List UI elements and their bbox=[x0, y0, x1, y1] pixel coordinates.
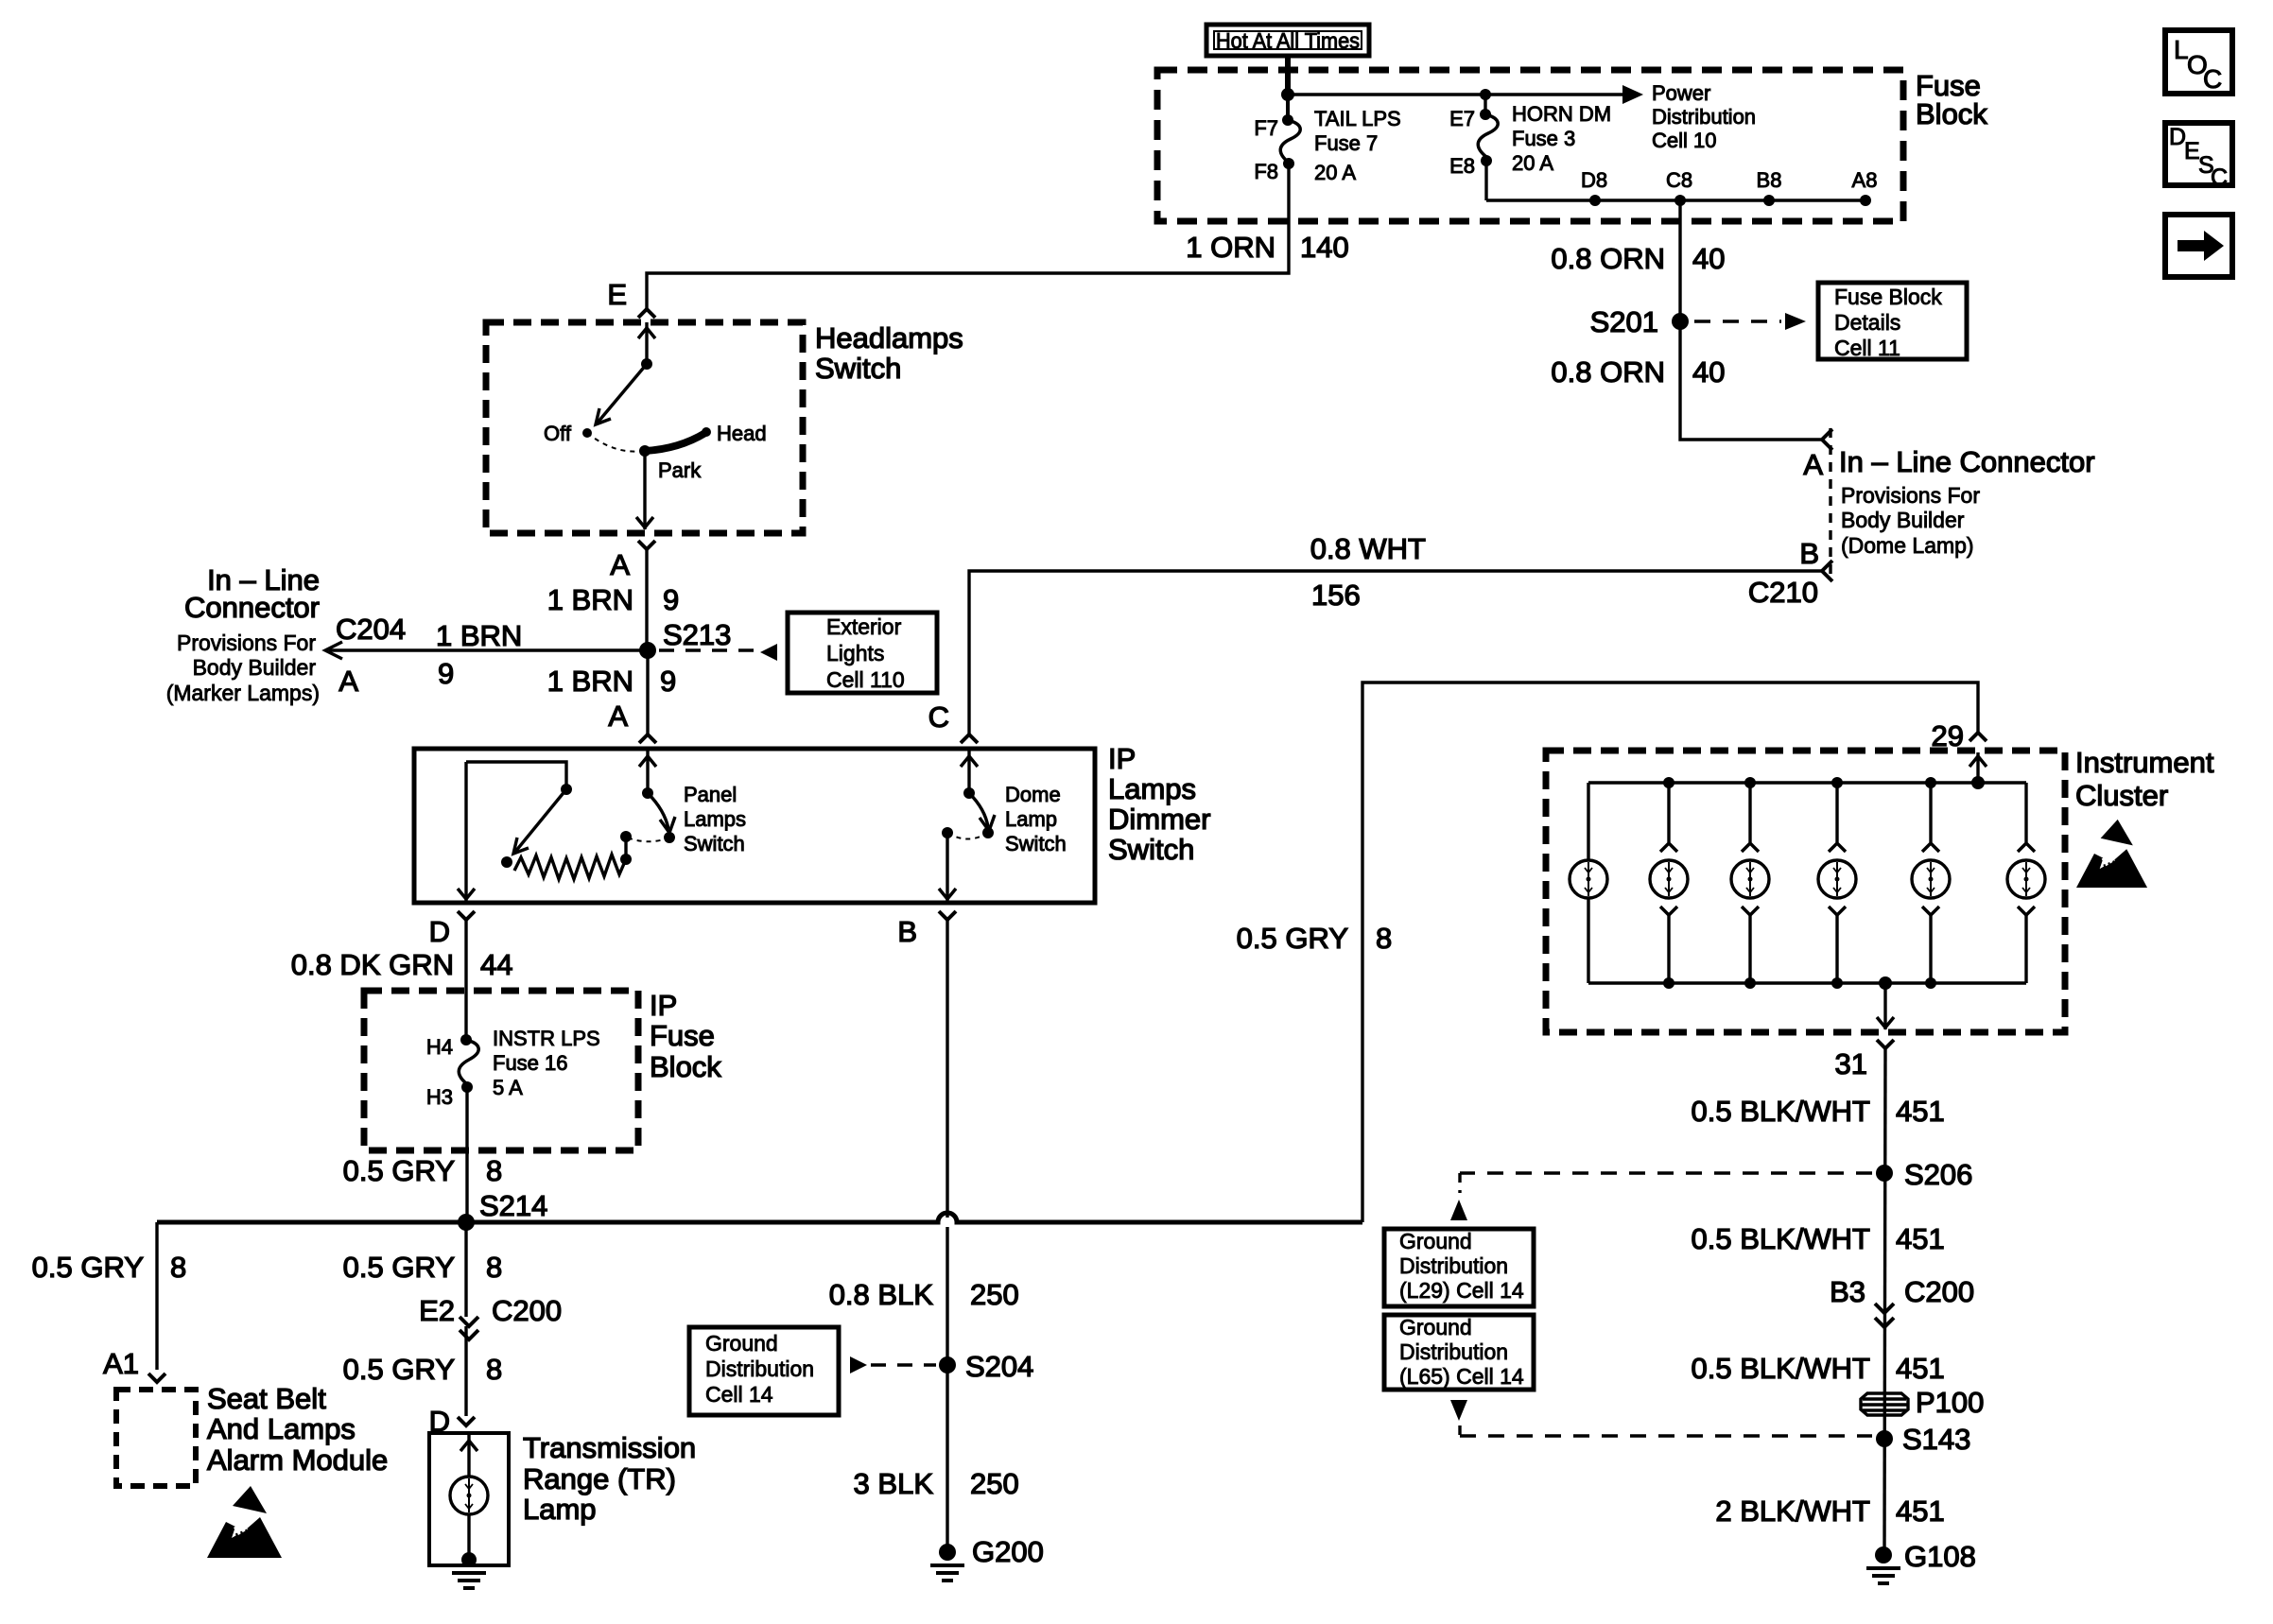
svg-text:A: A bbox=[1803, 448, 1823, 481]
svg-text:Cell 14: Cell 14 bbox=[705, 1382, 773, 1407]
cluster lamp 5 bbox=[1912, 777, 1950, 989]
wire junction to E7 bbox=[1484, 95, 1486, 114]
svg-text:In – Line Connector: In – Line Connector bbox=[1839, 445, 2095, 478]
svg-text:40: 40 bbox=[1692, 355, 1725, 389]
label C204 bbox=[336, 613, 406, 646]
label Instrument Cluster bbox=[2075, 746, 2214, 812]
terminal B8 bbox=[1757, 168, 1782, 206]
svg-text:Lamps: Lamps bbox=[1108, 772, 1196, 805]
svg-text:Switch: Switch bbox=[1005, 832, 1067, 855]
connector terminal A1 bbox=[103, 1347, 165, 1382]
connector terminal A (headlamps switch) bbox=[610, 541, 655, 581]
label 0.8 ORN 40 upper bbox=[1551, 242, 1725, 275]
label Hot At All Times bbox=[1206, 25, 1369, 56]
cluster bottom bus bbox=[1588, 981, 2026, 984]
label 2 BLK/WHT 451 bbox=[1715, 1494, 1944, 1528]
label Fuse Block bbox=[1916, 69, 1987, 130]
svg-text:8: 8 bbox=[486, 1251, 502, 1284]
svg-text:Distribution: Distribution bbox=[1399, 1339, 1508, 1364]
svg-text:Dome: Dome bbox=[1005, 783, 1061, 806]
svg-text:Connector: Connector bbox=[184, 591, 320, 624]
svg-text:C204: C204 bbox=[336, 613, 406, 646]
splice S143 bbox=[1876, 1423, 1970, 1456]
svg-text:A: A bbox=[338, 665, 358, 698]
svg-text:0.5 GRY: 0.5 GRY bbox=[343, 1154, 455, 1187]
svg-text:Cell 11: Cell 11 bbox=[1834, 336, 1900, 360]
svg-text:S143: S143 bbox=[1902, 1423, 1970, 1456]
svg-text:20 A: 20 A bbox=[1512, 151, 1553, 175]
svg-text:Provisions For: Provisions For bbox=[177, 631, 316, 655]
svg-text:Park: Park bbox=[658, 458, 702, 482]
svg-text:Ground: Ground bbox=[705, 1331, 778, 1356]
svg-text:31: 31 bbox=[1835, 1047, 1867, 1080]
connector terminal A (dimmer switch) bbox=[608, 700, 656, 743]
svg-text:44: 44 bbox=[480, 948, 512, 981]
svg-text:156: 156 bbox=[1311, 579, 1361, 612]
label Seat Belt And Lamps Alarm Module bbox=[207, 1382, 388, 1477]
cluster lamp 4 bbox=[1818, 777, 1856, 989]
svg-text:3 BLK: 3 BLK bbox=[854, 1467, 934, 1500]
svg-text:Switch: Switch bbox=[684, 832, 745, 855]
pin F7 bbox=[1254, 114, 1293, 140]
svg-text:(Marker Lamps): (Marker Lamps) bbox=[166, 681, 320, 705]
svg-text:Range (TR): Range (TR) bbox=[523, 1462, 676, 1495]
connector terminal E bbox=[607, 278, 655, 318]
wire bus right end up and across to cluster feed bbox=[1362, 682, 1978, 1222]
wire dimmer B down to G200 bbox=[946, 920, 948, 1552]
svg-text:250: 250 bbox=[970, 1278, 1019, 1311]
fuse E7-E8 HORN DM Fuse 3 20A bbox=[1478, 114, 1498, 157]
ESD symbol (seat belt module) bbox=[207, 1486, 282, 1558]
panel lamps switch pivot bbox=[642, 787, 653, 799]
svg-text:B3: B3 bbox=[1830, 1275, 1865, 1308]
junction at E7 column bbox=[1480, 89, 1491, 100]
pin H3 bbox=[426, 1081, 473, 1109]
svg-text:Panel: Panel bbox=[684, 783, 737, 806]
svg-text:And Lamps: And Lamps bbox=[207, 1412, 356, 1445]
dome lamp switch arm bbox=[969, 793, 995, 831]
label TAIL LPS Fuse 7 20 A bbox=[1314, 107, 1401, 184]
svg-text:C: C bbox=[928, 700, 949, 734]
seat belt module dashed outline bbox=[116, 1390, 196, 1486]
label 1 BRN 9 lower bbox=[547, 665, 677, 698]
svg-text:0.5 BLK/WHT: 0.5 BLK/WHT bbox=[1692, 1352, 1871, 1385]
svg-text:0.8 ORN: 0.8 ORN bbox=[1551, 355, 1665, 389]
svg-text:H3: H3 bbox=[426, 1085, 453, 1109]
svg-text:G200: G200 bbox=[972, 1535, 1044, 1568]
svg-text:Alarm Module: Alarm Module bbox=[207, 1443, 388, 1477]
svg-text:F8: F8 bbox=[1254, 160, 1278, 183]
wiper arm arrow bbox=[513, 789, 566, 854]
svg-text:Lights: Lights bbox=[826, 641, 884, 665]
instrument cluster dashed outline bbox=[1546, 751, 2065, 1032]
svg-text:Ground: Ground bbox=[1399, 1315, 1472, 1339]
svg-text:Fuse 7: Fuse 7 bbox=[1314, 131, 1378, 155]
svg-text:(L65) Cell 14: (L65) Cell 14 bbox=[1399, 1364, 1524, 1389]
wire hot feed into fuse block bbox=[1285, 56, 1291, 95]
svg-text:A1: A1 bbox=[103, 1347, 139, 1380]
label 3 BLK 250 bbox=[854, 1467, 1019, 1500]
reference box Ground Distribution (L29) Cell 14 bbox=[1384, 1229, 1534, 1306]
dashed arc panel switch to rheostat bbox=[630, 838, 669, 841]
pin E8 bbox=[1449, 154, 1492, 178]
svg-text:451: 451 bbox=[1896, 1352, 1945, 1385]
svg-text:Fuse 16: Fuse 16 bbox=[493, 1051, 568, 1075]
wire D to IP fuse block bbox=[464, 920, 467, 1040]
svg-text:E: E bbox=[607, 278, 627, 311]
label IP Fuse Block bbox=[650, 989, 721, 1083]
IP fuse block dashed outline bbox=[364, 991, 638, 1150]
svg-text:S201: S201 bbox=[1590, 305, 1658, 338]
label 0.5 GRY 8 above S214 bbox=[343, 1154, 503, 1187]
label HORN DM Fuse 3 20 A bbox=[1512, 102, 1611, 175]
label Power Distribution Cell 10 bbox=[1652, 81, 1756, 152]
svg-text:A: A bbox=[610, 548, 630, 581]
headlamps switch pivot bbox=[641, 358, 652, 370]
svg-text:8: 8 bbox=[486, 1154, 502, 1187]
svg-text:0.5 GRY: 0.5 GRY bbox=[343, 1251, 455, 1284]
cluster lamp 6 bbox=[2007, 783, 2045, 983]
svg-text:C200: C200 bbox=[1904, 1275, 1974, 1308]
dashed arrow S201 to Fuse Block Details bbox=[1694, 313, 1806, 330]
contact Park bbox=[639, 445, 702, 482]
wire Park down to A with exit arrow bbox=[636, 451, 653, 529]
connector pin A (marker lamps) bbox=[338, 665, 358, 698]
svg-text:0.5 BLK/WHT: 0.5 BLK/WHT bbox=[1692, 1095, 1871, 1128]
terminal A8 bbox=[1852, 168, 1878, 206]
rheostat right terminal bbox=[620, 831, 632, 865]
svg-text:IP: IP bbox=[650, 989, 677, 1022]
wire dome lamp C into dimmer with entry arrow bbox=[961, 751, 978, 793]
svg-text:Fuse Block: Fuse Block bbox=[1834, 285, 1942, 309]
wire E8 to terminal row bbox=[1484, 161, 1487, 200]
svg-text:A: A bbox=[608, 700, 628, 733]
svg-text:8: 8 bbox=[1376, 922, 1392, 955]
wiper feed wire bbox=[466, 762, 572, 795]
svg-text:Power: Power bbox=[1652, 81, 1710, 105]
reference box Exterior Lights Cell 110 bbox=[788, 613, 937, 693]
svg-text:Fuse: Fuse bbox=[650, 1019, 715, 1052]
svg-text:D8: D8 bbox=[1581, 168, 1607, 192]
headlamps switch arm to Off bbox=[596, 364, 647, 424]
ground G108 bbox=[1866, 1540, 1976, 1583]
svg-text:S206: S206 bbox=[1904, 1158, 1972, 1191]
ground symbol (TR lamp) bbox=[452, 1573, 486, 1588]
connector C200 pin B3 pass-through bbox=[1830, 1275, 1974, 1327]
panel lamps switch arm bbox=[648, 793, 675, 833]
ground G200 bbox=[930, 1535, 1044, 1581]
pin H4 bbox=[426, 1034, 472, 1059]
svg-text:8: 8 bbox=[486, 1353, 502, 1386]
label Panel Lamps Switch bbox=[684, 783, 746, 855]
label S214 bbox=[479, 1189, 547, 1222]
svg-text:Cell 110: Cell 110 bbox=[826, 667, 905, 692]
ESD symbol (instrument cluster) bbox=[2076, 820, 2147, 888]
connector terminal B (in-line, dome lamp) bbox=[1799, 537, 1832, 581]
splice S214 bbox=[458, 1214, 475, 1231]
cluster feed junction bbox=[1971, 776, 1985, 789]
connector terminal C (dimmer switch) bbox=[928, 700, 978, 743]
svg-text:Switch: Switch bbox=[815, 352, 901, 385]
label In-Line Connector (dome lamp) bbox=[1839, 445, 2095, 558]
wire bus left end down to A1 bbox=[155, 1222, 158, 1370]
dashed travel arc Off to Park bbox=[587, 433, 643, 452]
terminal D8 bbox=[1581, 168, 1607, 206]
wire S213 down to dimmer switch A bbox=[646, 650, 649, 734]
reference box Fuse Block Details Cell 11 bbox=[1818, 283, 1967, 360]
splice S201 bbox=[1590, 305, 1689, 338]
wire E into switch with entry arrow bbox=[638, 322, 655, 364]
switch wiper arc Park to Head bbox=[645, 433, 705, 451]
svg-text:D: D bbox=[429, 915, 450, 948]
svg-text:(L29) Cell 14: (L29) Cell 14 bbox=[1399, 1278, 1524, 1303]
dome lamp switch pivot bbox=[963, 787, 975, 799]
TR lamp ground terminal bbox=[461, 1552, 477, 1567]
junction at F7 column bbox=[1281, 88, 1294, 101]
panel lamps switch contact bbox=[664, 832, 675, 843]
label 1 BRN 9 upper bbox=[547, 583, 680, 616]
wire bus arrow to Power Distribution bbox=[1288, 85, 1643, 104]
headlamps switch dashed outline bbox=[486, 322, 803, 533]
svg-text:S213: S213 bbox=[663, 618, 731, 651]
svg-text:Seat Belt: Seat Belt bbox=[207, 1382, 326, 1415]
svg-text:451: 451 bbox=[1896, 1222, 1945, 1255]
svg-text:F7: F7 bbox=[1254, 116, 1278, 140]
IP lamps dimmer switch outline bbox=[414, 749, 1095, 903]
svg-text:9: 9 bbox=[660, 665, 676, 698]
svg-text:Provisions For: Provisions For bbox=[1841, 483, 1980, 508]
label 0.5 GRY 8 (TR leg) bbox=[343, 1353, 503, 1386]
svg-text:451: 451 bbox=[1896, 1494, 1945, 1528]
svg-text:C210: C210 bbox=[1748, 576, 1818, 609]
wire 31 down to G108 bbox=[1884, 1048, 1885, 1555]
svg-text:Block: Block bbox=[650, 1050, 721, 1083]
label 0.5 BLK/WHT 451 third bbox=[1692, 1352, 1945, 1385]
svg-text:0.8 WHT: 0.8 WHT bbox=[1310, 532, 1426, 565]
fuse F7-F8 TAIL LPS Fuse 7 20A bbox=[1280, 120, 1300, 163]
wire S213 to C204 with arrow bbox=[325, 642, 648, 659]
dashed arrow Ground Distribution to S204 bbox=[850, 1356, 936, 1373]
S214 bus wire with hop over B leg bbox=[157, 1213, 1362, 1222]
cluster lamp 2 bbox=[1650, 777, 1688, 989]
rheostat resistive element bbox=[514, 855, 626, 879]
label IP Lamps Dimmer Switch bbox=[1108, 742, 1211, 866]
connector terminal 29 (cluster feed) bbox=[1932, 719, 1987, 752]
connector terminal A (in-line, dome lamp) bbox=[1803, 429, 1832, 481]
svg-text:0.8 BLK: 0.8 BLK bbox=[829, 1278, 934, 1311]
cluster output junction bbox=[1879, 976, 1892, 990]
svg-text:0.5 GRY: 0.5 GRY bbox=[343, 1353, 455, 1386]
svg-text:2 BLK/WHT: 2 BLK/WHT bbox=[1715, 1494, 1870, 1528]
label C210 bbox=[1748, 576, 1818, 609]
svg-text:B8: B8 bbox=[1757, 168, 1782, 192]
svg-text:0.8 ORN: 0.8 ORN bbox=[1551, 242, 1665, 275]
svg-text:C200: C200 bbox=[492, 1294, 562, 1327]
wire wiper feed to D exit with arrow bbox=[458, 762, 475, 901]
contact Off bbox=[544, 422, 592, 445]
legend box forward arrow bbox=[2165, 215, 2232, 277]
legend box DESC bbox=[2165, 123, 2232, 191]
label 0.8 ORN 40 lower bbox=[1551, 355, 1725, 389]
svg-text:20 A: 20 A bbox=[1314, 161, 1356, 184]
svg-text:Details: Details bbox=[1834, 310, 1900, 335]
fuse block terminal row wire bbox=[1486, 199, 1865, 201]
svg-text:B: B bbox=[1799, 537, 1819, 570]
cluster lamp 3 bbox=[1731, 777, 1769, 989]
svg-text:250: 250 bbox=[970, 1467, 1019, 1500]
svg-text:HORN DM: HORN DM bbox=[1512, 102, 1611, 126]
connector terminal 31 (cluster output) bbox=[1835, 1040, 1894, 1080]
wire 0.8 WHT from C210 to dimmer C bbox=[969, 571, 1822, 734]
wire A into dimmer with entry arrow bbox=[639, 751, 656, 793]
rheostat wiper terminal bbox=[501, 856, 512, 868]
svg-text:A8: A8 bbox=[1852, 168, 1878, 192]
wire B exit with arrow bbox=[939, 833, 956, 901]
label 0.8 DK GRN 44 bbox=[291, 948, 513, 981]
svg-text:9: 9 bbox=[438, 657, 454, 690]
svg-text:Lamp: Lamp bbox=[1005, 807, 1057, 831]
dashed reference L65 to S143 bbox=[1450, 1400, 1872, 1436]
transmission range lamp outline bbox=[429, 1433, 509, 1565]
svg-text:Cluster: Cluster bbox=[2075, 779, 2168, 812]
label 1 BRN 9 (marker lamps leg) bbox=[436, 619, 522, 690]
reference box Ground Distribution (L65) Cell 14 bbox=[1384, 1315, 1534, 1390]
grommet P100 bbox=[1861, 1386, 1984, 1419]
splice S204 bbox=[939, 1350, 1033, 1383]
svg-text:Block: Block bbox=[1916, 97, 1987, 130]
svg-text:C: C bbox=[2203, 64, 2222, 94]
label 0.5 GRY 8 below S214 bbox=[343, 1251, 503, 1284]
svg-text:Switch: Switch bbox=[1108, 833, 1194, 866]
label 0.5 BLK/WHT 451 first bbox=[1692, 1095, 1945, 1128]
label Headlamps Switch bbox=[815, 321, 963, 385]
TR lamp bulb bbox=[450, 1477, 488, 1514]
svg-text:451: 451 bbox=[1896, 1095, 1945, 1128]
label 0.5 BLK/WHT 451 second bbox=[1692, 1222, 1945, 1255]
svg-text:Body Builder: Body Builder bbox=[193, 655, 317, 680]
wire 29 into cluster with entry arrow bbox=[1969, 752, 1987, 783]
in-line connector boundary (dome lamp) bbox=[1829, 428, 1831, 574]
svg-text:Lamps: Lamps bbox=[684, 807, 746, 831]
label Dome Lamp Switch bbox=[1005, 783, 1067, 855]
svg-text:C: C bbox=[2211, 164, 2228, 191]
svg-text:S214: S214 bbox=[479, 1189, 547, 1222]
svg-text:Headlamps: Headlamps bbox=[815, 321, 963, 354]
splice S206 bbox=[1876, 1158, 1972, 1191]
connector terminal B (dimmer switch) bbox=[897, 911, 956, 948]
label 0.5 GRY 8 (cluster feed) bbox=[1237, 922, 1393, 955]
svg-text:P100: P100 bbox=[1916, 1386, 1984, 1419]
svg-text:H4: H4 bbox=[426, 1035, 453, 1059]
svg-text:Fuse 3: Fuse 3 bbox=[1512, 127, 1575, 150]
svg-text:IP: IP bbox=[1108, 742, 1136, 775]
svg-text:40: 40 bbox=[1692, 242, 1725, 275]
svg-text:Exterior: Exterior bbox=[826, 614, 902, 639]
svg-text:Ground: Ground bbox=[1399, 1229, 1472, 1253]
svg-text:9: 9 bbox=[663, 583, 679, 616]
wire C200 to TR lamp D bbox=[464, 1326, 467, 1416]
svg-text:E8: E8 bbox=[1449, 154, 1475, 178]
svg-text:0.8 DK GRN: 0.8 DK GRN bbox=[291, 948, 454, 981]
wire C8 down to S201 bbox=[1678, 200, 1681, 321]
fuse block dashed outline bbox=[1157, 70, 1903, 221]
splice S213 bbox=[639, 618, 731, 659]
fuse H4-H3 INSTR LPS Fuse 16 5A bbox=[459, 1040, 478, 1084]
svg-text:E2: E2 bbox=[419, 1294, 455, 1327]
svg-text:B: B bbox=[897, 915, 917, 948]
connector terminal D (dimmer switch) bbox=[429, 911, 475, 948]
svg-text:Instrument: Instrument bbox=[2075, 746, 2214, 779]
label 0.8 WHT 156 bbox=[1310, 532, 1426, 612]
dome switch output contact bbox=[942, 827, 953, 838]
dome lamp switch contact bbox=[982, 827, 994, 838]
connector terminal D (TR lamp) bbox=[429, 1405, 475, 1438]
svg-text:140: 140 bbox=[1300, 231, 1349, 264]
svg-text:G108: G108 bbox=[1904, 1540, 1976, 1573]
label 1 ORN 140 bbox=[1186, 231, 1348, 264]
wire S214 down to C200 bbox=[464, 1222, 467, 1317]
svg-text:5 A: 5 A bbox=[493, 1076, 523, 1099]
svg-text:Hot At All Times: Hot At All Times bbox=[1216, 28, 1360, 53]
contact Head bbox=[702, 422, 767, 445]
dashed arrow S213 to Exterior Lights bbox=[659, 644, 777, 661]
terminal C8 bbox=[1666, 168, 1692, 206]
svg-text:Cell 10: Cell 10 bbox=[1652, 129, 1716, 152]
label 0.5 GRY 8 (module leg) bbox=[32, 1251, 187, 1284]
svg-text:S204: S204 bbox=[965, 1350, 1033, 1383]
wire H3 down to S214 bbox=[465, 1087, 468, 1222]
wire A to S213 bbox=[645, 549, 648, 650]
legend box LOC bbox=[2165, 30, 2232, 94]
pin E7 bbox=[1449, 107, 1491, 130]
svg-text:Distribution: Distribution bbox=[1399, 1253, 1508, 1278]
wire junction to F7 bbox=[1286, 95, 1290, 120]
svg-text:1 BRN: 1 BRN bbox=[436, 619, 522, 652]
svg-text:INSTR LPS: INSTR LPS bbox=[493, 1027, 600, 1050]
connector C200 pin E2 pass-through bbox=[419, 1294, 562, 1339]
svg-text:Distribution: Distribution bbox=[705, 1356, 814, 1381]
svg-text:1 ORN: 1 ORN bbox=[1186, 231, 1275, 264]
svg-text:1 BRN: 1 BRN bbox=[547, 665, 633, 698]
svg-text:Off: Off bbox=[544, 422, 572, 445]
label In-Line Connector (marker lamps) bbox=[166, 563, 320, 705]
svg-text:Dimmer: Dimmer bbox=[1108, 803, 1211, 836]
svg-text:C8: C8 bbox=[1666, 168, 1692, 192]
svg-text:E7: E7 bbox=[1449, 107, 1475, 130]
cluster lamp 1 bbox=[1570, 783, 1607, 983]
dashed reference S206 to ground distribution L29 bbox=[1450, 1173, 1872, 1220]
wire into TR lamp with entry arrow bbox=[460, 1435, 477, 1477]
svg-text:8: 8 bbox=[170, 1251, 186, 1284]
svg-text:Head: Head bbox=[717, 422, 767, 445]
svg-text:1 BRN: 1 BRN bbox=[547, 583, 633, 616]
svg-text:TAIL LPS: TAIL LPS bbox=[1314, 107, 1401, 130]
pin F8 bbox=[1254, 158, 1294, 183]
svg-text:Distribution: Distribution bbox=[1652, 105, 1756, 129]
wire S201 down to in-line connector A bbox=[1680, 321, 1822, 440]
cluster top bus bbox=[1588, 781, 2026, 784]
reference box Ground Distribution Cell 14 bbox=[689, 1327, 839, 1415]
dashed arc dome switch to B leg bbox=[951, 833, 988, 839]
wire F8 down and across to headlamps switch E bbox=[647, 164, 1289, 308]
label 0.8 BLK 250 bbox=[829, 1278, 1019, 1311]
svg-text:Transmission: Transmission bbox=[523, 1431, 696, 1464]
svg-text:Body Builder: Body Builder bbox=[1841, 508, 1965, 532]
label INSTR LPS Fuse 16 5 A bbox=[493, 1027, 600, 1099]
svg-text:Lamp: Lamp bbox=[523, 1493, 597, 1526]
wire cluster output with exit arrow bbox=[1877, 983, 1894, 1029]
svg-text:0.5 BLK/WHT: 0.5 BLK/WHT bbox=[1692, 1222, 1871, 1255]
